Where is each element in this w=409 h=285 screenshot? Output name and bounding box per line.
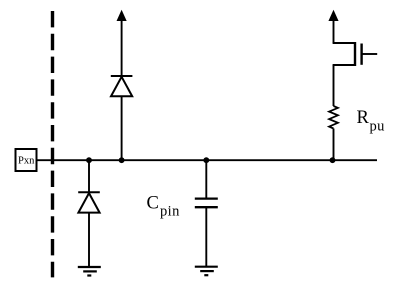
wire rail to capacitor Cpin top plate [205, 160, 207, 199]
wire resistor Rpu to rail [333, 129, 335, 161]
clamp diode D1 (ground to pin) [78, 192, 100, 212]
chip boundary dashed line [51, 11, 54, 277]
resistor Rpu (pull-up) [329, 106, 338, 129]
transistor Q1 pull-up MOSFET [333, 42, 378, 66]
svg-text:pin: pin [160, 204, 180, 220]
svg-text:Pxn: Pxn [18, 156, 35, 167]
label Pxn [18, 156, 35, 167]
wire pin rail (node Pxn net) [37, 159, 378, 161]
wire capacitor Cpin bottom plate to ground [205, 207, 207, 266]
wire diode D2 anode to rail [121, 96, 123, 160]
svg-text:R: R [357, 108, 370, 128]
capacitor Cpin [195, 199, 218, 208]
node junction: clamp diode D2 to rail [119, 157, 125, 163]
node junction: clamp diode D1 to rail [86, 157, 92, 163]
ground symbol (below capacitor Cpin) [195, 267, 218, 276]
power VCC arrow (above clamp diode D2) [117, 11, 126, 21]
wire rail to diode D1 cathode [88, 160, 90, 192]
svg-text:C: C [147, 194, 159, 214]
node junction: capacitor Cpin to rail [203, 157, 209, 163]
wire VCC arrow to diode D2 cathode [121, 19, 123, 76]
label Rpu value [357, 108, 385, 135]
wire VCC arrow to MOSFET Q1 source [333, 19, 335, 43]
clamp diode D2 (pin to VCC) [111, 76, 133, 96]
node junction: pull-up resistor Rpu to rail [330, 157, 336, 163]
wire MOSFET Q1 drain to resistor Rpu [333, 65, 335, 106]
power VCC arrow (above MOSFET Q1) [329, 11, 338, 21]
ground symbol (below diode D1) [78, 267, 101, 276]
pin terminal box Pxn [16, 149, 37, 171]
svg-text:pu: pu [370, 119, 385, 135]
label Cpin value [147, 194, 181, 220]
wire diode D1 anode to ground [88, 213, 90, 267]
